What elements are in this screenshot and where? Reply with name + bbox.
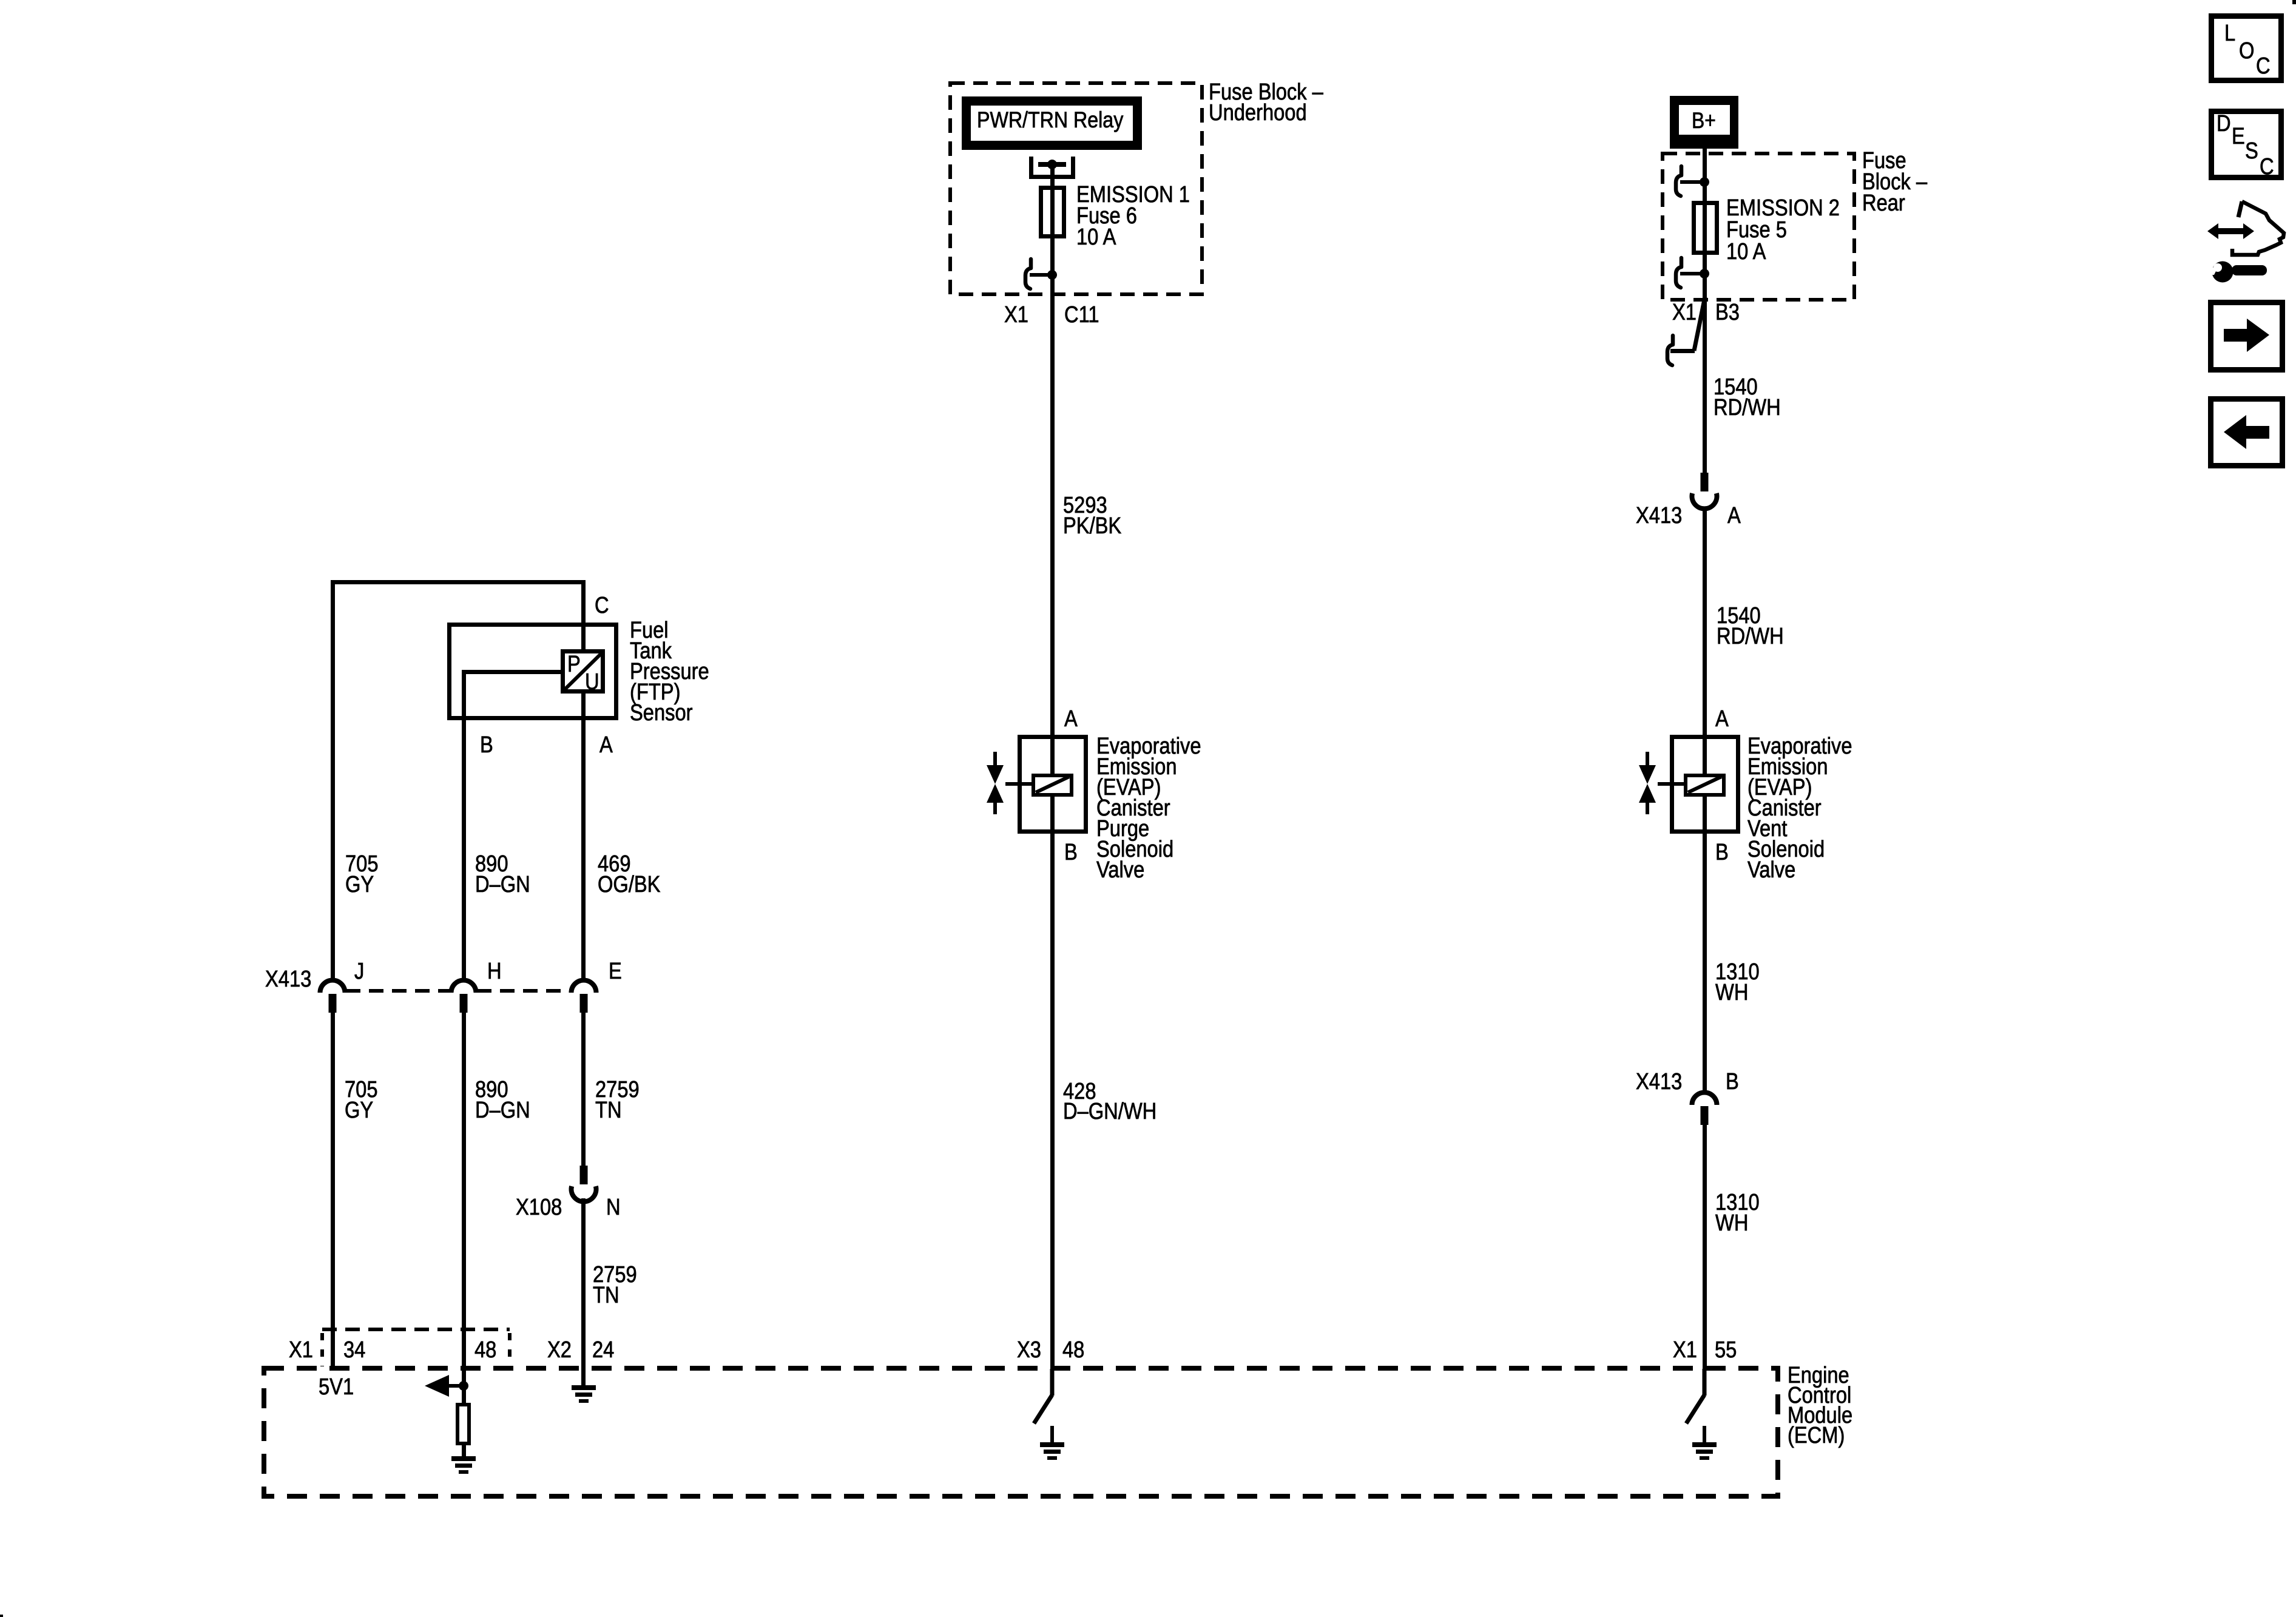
wire sensor internal horizontal to B — [462, 670, 563, 674]
wire to connector X1-C11 and through purge solenoid — [1050, 275, 1055, 1369]
svg-text:55: 55 — [1715, 1337, 1737, 1363]
EVAP canister purge solenoid valve — [987, 737, 1086, 832]
connector X413 terminal J — [320, 980, 345, 1013]
svg-text:E: E — [609, 958, 622, 984]
svg-text:705GY: 705GY — [345, 851, 379, 897]
svg-text:705GY: 705GY — [345, 1076, 378, 1123]
svg-text:A: A — [1727, 502, 1741, 528]
wire E below X108 — [581, 1198, 586, 1387]
svg-text:B: B — [480, 732, 493, 758]
svg-text:C: C — [595, 592, 609, 618]
svg-text:B3: B3 — [1715, 299, 1740, 325]
EVAP canister vent solenoid valve — [1639, 737, 1738, 832]
Fuse Block Rear dashed box — [1663, 154, 1854, 300]
svg-text:L: L — [2224, 20, 2235, 46]
internal arrow to 5V1 — [437, 1384, 464, 1388]
svg-text:X1: X1 — [1672, 299, 1697, 325]
ground (ECM internal, X2-24) — [572, 1385, 596, 1403]
wire E lower — [581, 1011, 586, 1167]
ECM low side driver and ground (vent) — [1686, 1369, 1717, 1460]
ECM low side driver and ground (purge) — [1034, 1369, 1064, 1460]
svg-text:PWR/TRN Relay: PWR/TRN Relay — [977, 108, 1124, 133]
fuse clip hook upper — [1676, 166, 1681, 196]
wire J lower — [331, 1011, 335, 1368]
wire A vertical — [581, 691, 586, 980]
LOC icon box — [2212, 16, 2281, 81]
relay contact bracket — [1029, 157, 1033, 179]
svg-text:C11: C11 — [1064, 302, 1099, 328]
PWR/TRN Relay box — [962, 96, 1142, 150]
svg-text:B: B — [1064, 839, 1078, 865]
svg-text:X1: X1 — [1004, 302, 1028, 328]
wire J vertical upper — [331, 580, 335, 980]
forward arrow icon box — [2211, 303, 2283, 370]
ground (ECM internal, H branch) — [451, 1456, 476, 1474]
wire X413A through vent solenoid to X413 B — [1703, 507, 1707, 1093]
svg-text:D: D — [2217, 110, 2231, 137]
Engine Control Module dashed box — [264, 1368, 1778, 1496]
svg-text:J: J — [354, 958, 364, 984]
svg-text:B: B — [1715, 839, 1729, 865]
svg-text:Fuse Block –Underhood: Fuse Block –Underhood — [1209, 79, 1323, 126]
svg-text:N: N — [606, 1194, 621, 1220]
svg-text:E: E — [2232, 123, 2245, 149]
wire C vertical — [581, 580, 586, 653]
svg-text:X1: X1 — [289, 1337, 313, 1363]
page corner mark top right — [2292, 0, 2296, 4]
svg-text:X3: X3 — [1017, 1337, 1041, 1363]
connector B3 terminal tap — [1694, 297, 1705, 351]
wire top horizontal C to J — [331, 580, 585, 584]
svg-text:EngineControlModule(ECM): EngineControlModule(ECM) — [1788, 1362, 1852, 1448]
fuse EMISSION 1 (Fuse 6) — [1041, 188, 1064, 237]
wire B vertical — [462, 670, 466, 980]
car service icon — [2205, 201, 2284, 283]
FTP sensor P/U transducer square — [563, 652, 603, 692]
B+ box — [1670, 96, 1738, 149]
Fuel Tank Pressure (FTP) Sensor box — [450, 625, 616, 718]
connector X413 terminal B — [1692, 1092, 1717, 1125]
svg-text:A: A — [1715, 706, 1729, 732]
fuse EMISSION 2 (Fuse 5) — [1694, 203, 1717, 253]
svg-text:H: H — [487, 958, 502, 984]
svg-text:X1: X1 — [1673, 1337, 1697, 1363]
svg-text:C: C — [2260, 154, 2274, 180]
back arrow icon box — [2211, 399, 2283, 466]
svg-text:X413: X413 — [1636, 1068, 1682, 1095]
svg-text:B: B — [1726, 1068, 1739, 1095]
wire H lower — [462, 1011, 466, 1386]
relay contact arm with junction dot — [1038, 162, 1066, 167]
svg-text:48: 48 — [1062, 1337, 1084, 1363]
svg-text:X108: X108 — [516, 1194, 562, 1220]
svg-text:X413: X413 — [265, 966, 311, 992]
svg-text:C: C — [2256, 53, 2271, 79]
svg-text:24: 24 — [592, 1337, 614, 1363]
clip tie line and junction dot — [1030, 273, 1052, 277]
connector X413 terminal E — [572, 980, 596, 1013]
connector X413 terminal H — [451, 980, 476, 1013]
svg-text:P: P — [567, 651, 581, 677]
wire B+ to fuse — [1703, 149, 1707, 255]
fuse clip hook lower — [1676, 258, 1681, 288]
svg-text:S: S — [2245, 138, 2258, 164]
resistor R inside ECM — [458, 1405, 469, 1443]
connector X413 dashed tie line — [346, 989, 450, 993]
junction dot on H wire inside ECM — [459, 1381, 468, 1391]
wire X413B to ECM — [1703, 1124, 1707, 1369]
svg-text:X413: X413 — [1636, 502, 1682, 528]
svg-text:U: U — [585, 669, 599, 695]
Fuse Block Underhood dashed box — [950, 83, 1202, 294]
page corner mark bottom left — [0, 1615, 3, 1617]
connector X413 terminal A — [1692, 473, 1717, 508]
svg-text:X2: X2 — [547, 1337, 572, 1363]
svg-text:34: 34 — [343, 1337, 365, 1363]
connector X108 terminal — [572, 1166, 596, 1201]
DESC icon box — [2212, 110, 2281, 180]
wire through X1-B3 — [1703, 253, 1707, 473]
svg-text:B+: B+ — [1692, 109, 1716, 133]
svg-text:A: A — [1064, 706, 1078, 732]
svg-text:48: 48 — [474, 1337, 496, 1363]
ECM pin box dashed — [322, 1328, 510, 1331]
wire relay to fuse — [1050, 164, 1055, 275]
svg-text:A: A — [599, 732, 613, 758]
svg-text:O: O — [2239, 38, 2254, 64]
fuse clip hook — [1025, 259, 1031, 289]
svg-text:5V1: 5V1 — [319, 1374, 354, 1400]
